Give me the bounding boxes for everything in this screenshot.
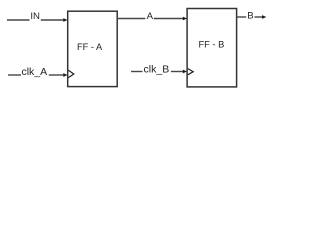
label FF - B <box>198 40 224 50</box>
svg-text:FF - A: FF - A <box>77 42 103 52</box>
net label IN <box>30 11 40 22</box>
net label B <box>247 11 253 22</box>
flip-flop U1 (FF - A) body <box>68 11 118 86</box>
clock wedge of FF-B <box>188 69 193 75</box>
wire B from FF-B Q output (left segment) <box>237 16 247 18</box>
svg-text:A: A <box>147 11 154 22</box>
wire A (right segment into FF-B pin D) <box>154 17 187 21</box>
wire B (output segment with arrow) <box>255 15 267 19</box>
clock wedge of FF-A <box>68 70 73 77</box>
wire clk_B (right segment into FF-B clock pin) <box>171 70 187 74</box>
svg-text:B: B <box>247 11 253 22</box>
wire clk_A (right segment into FF-A clock pin) <box>49 73 68 77</box>
flip-flop U2 (FF - B) body <box>187 9 237 87</box>
wire A from FF-A Q output (left segment) <box>117 18 145 20</box>
wire clk_B (left segment) <box>131 71 143 73</box>
svg-text:IN: IN <box>30 11 40 22</box>
svg-text:clk_B: clk_B <box>144 63 170 75</box>
net label A <box>147 11 154 22</box>
wire IN (left segment) <box>7 19 30 21</box>
net label clk_A <box>21 66 47 78</box>
net label clk_B <box>144 63 170 75</box>
label FF - A <box>77 42 103 52</box>
svg-text:clk_A: clk_A <box>21 66 47 78</box>
wire IN (right segment into FF-A pin D) <box>41 18 68 22</box>
wire clk_A (left segment) <box>8 74 21 76</box>
svg-text:FF - B: FF - B <box>198 40 224 50</box>
